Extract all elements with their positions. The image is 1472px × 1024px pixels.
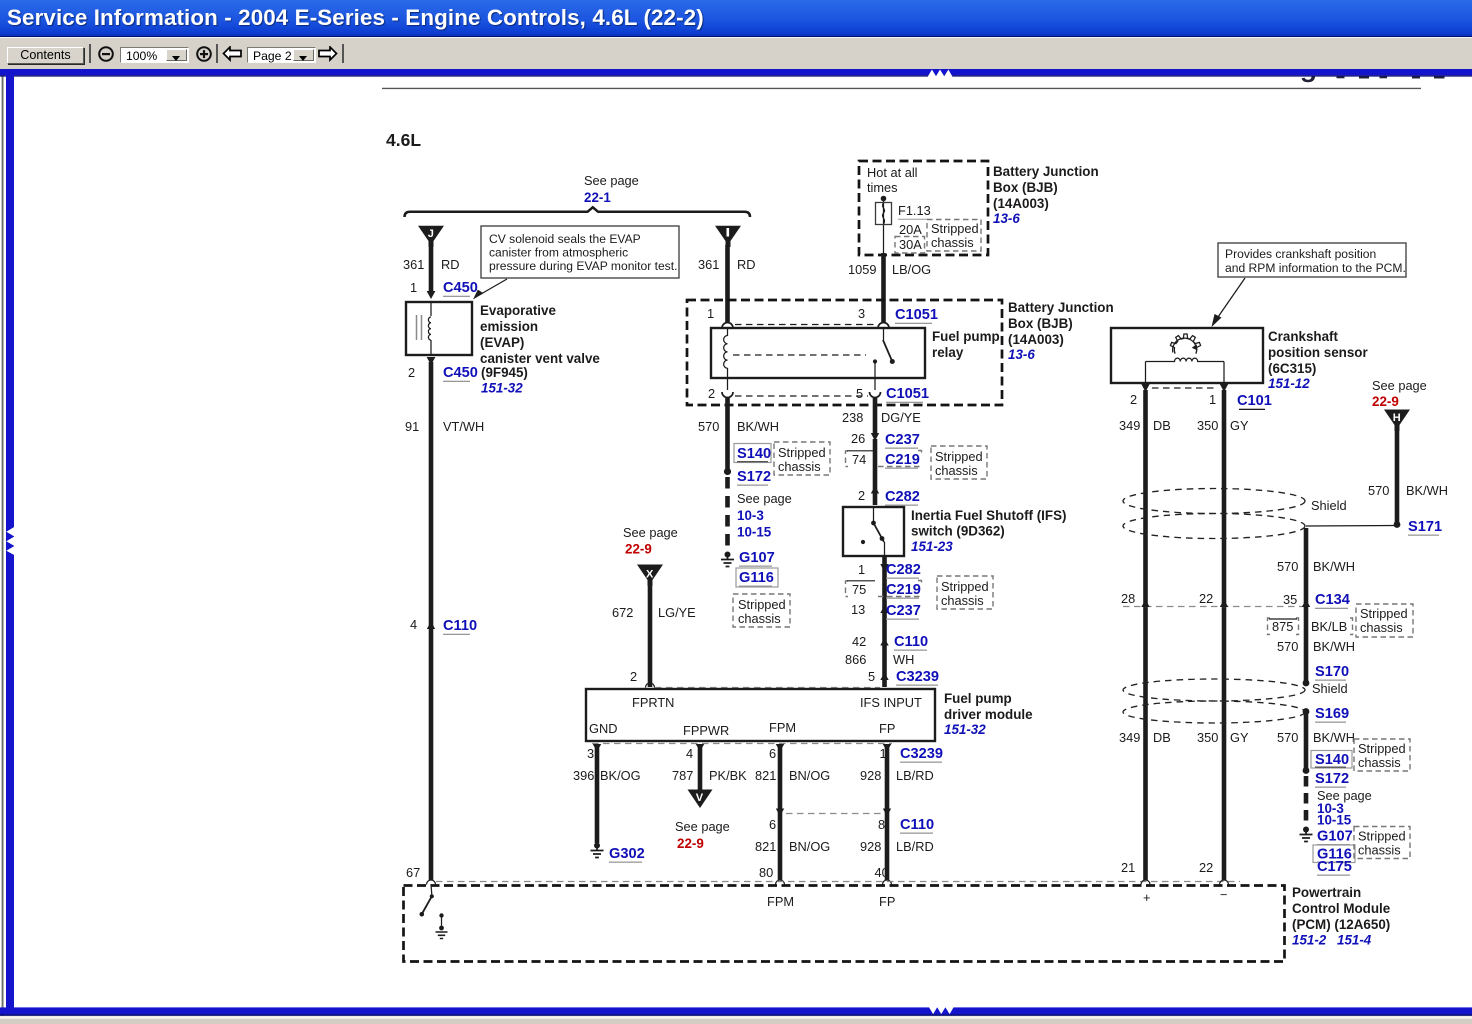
- svg-text:FP: FP: [879, 894, 895, 909]
- svg-text:Inertia Fuel Shutoff (IFS): Inertia Fuel Shutoff (IFS): [911, 508, 1066, 523]
- connector C219 pin 74: [846, 451, 922, 467]
- relay box: [711, 328, 925, 378]
- svg-text:22: 22: [1199, 860, 1213, 875]
- svg-text:See page: See page: [675, 819, 730, 834]
- wire 91 VT/WH: [429, 362, 434, 880]
- PCM internal switch to ground: [430, 884, 433, 895]
- svg-text:PK/BK: PK/BK: [709, 768, 747, 783]
- svg-text:4: 4: [686, 746, 693, 761]
- svg-text:67: 67: [406, 865, 420, 880]
- svg-text:Stripped: Stripped: [738, 597, 786, 612]
- inertia fuel shutoff switch: [843, 507, 904, 556]
- svg-text:C219: C219: [885, 452, 920, 468]
- svg-text:2: 2: [858, 488, 865, 503]
- stripped chassis note (C219 lower): [937, 576, 993, 609]
- svg-text:Battery Junction: Battery Junction: [1008, 300, 1114, 315]
- svg-text:80: 80: [759, 865, 773, 880]
- svg-text:C101: C101: [1237, 393, 1272, 409]
- svg-text:FPM: FPM: [769, 720, 796, 735]
- svg-text:position sensor: position sensor: [1268, 345, 1368, 360]
- wire 361 RD (J to C450): [429, 245, 434, 292]
- svg-text:26: 26: [851, 431, 865, 446]
- viewport frame: left window edge: [2, 67, 4, 1024]
- svg-text:6: 6: [769, 746, 776, 761]
- svg-text:Stripped: Stripped: [935, 449, 983, 464]
- svg-text:570: 570: [1368, 483, 1389, 498]
- svg-text:G302: G302: [609, 846, 645, 862]
- svg-text:Hot at all: Hot at all: [867, 165, 918, 180]
- svg-text:Shield: Shield: [1311, 498, 1347, 513]
- wire 821 BN/OG upper: [778, 748, 783, 880]
- svg-text:S140: S140: [1315, 752, 1349, 768]
- svg-text:13-6: 13-6: [1008, 347, 1035, 362]
- svg-text:30A: 30A: [899, 237, 922, 252]
- svg-text:chassis: chassis: [1358, 843, 1401, 858]
- svg-text:(PCM) (12A650): (PCM) (12A650): [1292, 917, 1390, 932]
- svg-text:relay: relay: [932, 345, 964, 360]
- svg-text:1: 1: [1209, 392, 1216, 407]
- svg-text:FPM: FPM: [767, 894, 794, 909]
- svg-text:13: 13: [851, 602, 865, 617]
- svg-text:74: 74: [852, 452, 866, 467]
- svg-text:821: 821: [755, 768, 776, 783]
- battery junction box (fuse) dashed enclosure: [859, 161, 988, 255]
- svg-text:Box (BJB): Box (BJB): [1008, 316, 1073, 331]
- svg-text:22-9: 22-9: [625, 542, 652, 557]
- svg-text:and RPM information to the PCM: and RPM information to the PCM.: [1225, 261, 1406, 275]
- svg-text:G116: G116: [739, 570, 774, 586]
- svg-text:VT/WH: VT/WH: [443, 419, 484, 434]
- svg-text:CV solenoid seals the EVAP: CV solenoid seals the EVAP: [489, 232, 641, 246]
- svg-text:GND: GND: [589, 721, 617, 736]
- stripped chassis note (C219): [931, 446, 987, 479]
- fuel pump driver module: [586, 689, 935, 741]
- svg-text:chassis: chassis: [941, 593, 984, 608]
- svg-text:75: 75: [852, 582, 866, 597]
- svg-text:2: 2: [408, 365, 415, 380]
- stripped chassis note (C134): [1356, 604, 1413, 637]
- crankshaft note callout: [1218, 243, 1406, 277]
- svg-text:S170: S170: [1315, 664, 1349, 680]
- crankshaft position sensor: [1111, 328, 1263, 383]
- wire 570 BK/WH (shield drain from H): [1395, 429, 1400, 522]
- viewport frame: bottom blue bar: [0, 1007, 1472, 1014]
- svg-text:151-2: 151-2: [1292, 933, 1327, 948]
- svg-text:RD: RD: [441, 257, 459, 272]
- svg-text:FP: FP: [879, 721, 895, 736]
- svg-text:C282: C282: [885, 489, 920, 505]
- svg-text:Fuel pump: Fuel pump: [944, 691, 1012, 706]
- svg-text:See page: See page: [737, 491, 792, 506]
- svg-text:151-4: 151-4: [1337, 933, 1372, 948]
- svg-text:LG/YE: LG/YE: [658, 605, 696, 620]
- relay switch: [883, 328, 885, 340]
- svg-text:C450: C450: [443, 365, 478, 381]
- svg-text:821: 821: [755, 839, 776, 854]
- svg-text:V: V: [696, 792, 704, 804]
- svg-text:C3239: C3239: [900, 746, 943, 762]
- svg-text:151-23: 151-23: [911, 539, 953, 554]
- svg-text:chassis: chassis: [931, 235, 974, 250]
- splice S172 (drain): [1303, 767, 1310, 774]
- svg-text:20A: 20A: [899, 222, 922, 237]
- svg-text:151-32: 151-32: [481, 381, 523, 396]
- svg-text:Shield: Shield: [1312, 681, 1348, 696]
- svg-text:(EVAP): (EVAP): [480, 335, 524, 350]
- svg-text:RD: RD: [737, 257, 755, 272]
- CV solenoid note callout: [481, 226, 679, 278]
- svg-text:151-32: 151-32: [944, 722, 986, 737]
- shield (lower): [1123, 679, 1305, 701]
- svg-text:350: 350: [1197, 418, 1218, 433]
- wire 928 LB/RD upper: [885, 748, 890, 880]
- bottom gray strip: [0, 1016, 1472, 1024]
- svg-text:switch (9D362): switch (9D362): [911, 524, 1005, 539]
- svg-text:22-9: 22-9: [677, 836, 704, 851]
- shield (upper): [1123, 489, 1305, 514]
- svg-text:Control Module: Control Module: [1292, 901, 1390, 916]
- svg-text:C282: C282: [886, 562, 921, 578]
- toolbar: [0, 37, 1472, 69]
- svg-text:C237: C237: [886, 603, 921, 619]
- svg-text:chassis: chassis: [1360, 620, 1403, 635]
- ground G302: [594, 843, 600, 849]
- svg-text:pressure during EVAP monitor t: pressure during EVAP monitor test.: [489, 259, 677, 273]
- svg-text:GY: GY: [1230, 418, 1249, 433]
- svg-text:emission: emission: [480, 319, 538, 334]
- svg-text:570: 570: [1277, 639, 1298, 654]
- relay coil: [727, 328, 729, 378]
- svg-text:C237: C237: [885, 432, 920, 448]
- svg-text:X: X: [646, 569, 654, 581]
- svg-text:13-6: 13-6: [993, 211, 1020, 226]
- splice S172: [724, 468, 731, 475]
- svg-text:C110: C110: [900, 817, 934, 833]
- svg-text:28: 28: [1121, 591, 1135, 606]
- svg-text:Fuel pump: Fuel pump: [932, 329, 1000, 344]
- svg-text:928: 928: [860, 768, 881, 783]
- svg-text:G107: G107: [1317, 829, 1353, 845]
- svg-text:672: 672: [612, 605, 633, 620]
- connector C110 pin 4: [427, 622, 435, 630]
- svg-text:BK/WH: BK/WH: [1406, 483, 1448, 498]
- top tear zigzag: [928, 70, 953, 79]
- svg-text:866: 866: [845, 652, 866, 667]
- gear icon: [1170, 334, 1200, 354]
- fuel pump relay dashed enclosure (BJB): [687, 300, 1002, 405]
- svg-text:canister from atmospheric: canister from atmospheric: [489, 246, 628, 260]
- connector C282 pin 2: [871, 486, 879, 494]
- stripped chassis note (S140): [774, 442, 830, 475]
- svg-text:35: 35: [1283, 592, 1297, 607]
- svg-text:S169: S169: [1315, 706, 1349, 722]
- PCM connector line C175: [436, 881, 1240, 883]
- wire 787 PK/BK: [698, 748, 703, 790]
- svg-text:S171: S171: [1408, 519, 1442, 535]
- wire 570 BK/WH (relay pin2 down): [725, 398, 730, 470]
- svg-text:22-1: 22-1: [584, 190, 611, 205]
- svg-text:C1051: C1051: [886, 386, 929, 402]
- wire 349 DB: [1143, 390, 1148, 880]
- connector C282 pin 1: [882, 556, 887, 687]
- svg-text:(9F945): (9F945): [481, 365, 528, 380]
- svg-text:361: 361: [403, 257, 424, 272]
- svg-text:DB: DB: [1153, 730, 1171, 745]
- svg-text:S172: S172: [1315, 771, 1349, 787]
- svg-text:F1.13: F1.13: [898, 203, 931, 218]
- connector C237 pin 13: [880, 606, 888, 614]
- bus bracket: [405, 207, 751, 217]
- window title bar: [0, 0, 1472, 37]
- svg-text:See page: See page: [584, 173, 639, 188]
- svg-text:−: −: [1220, 887, 1227, 902]
- svg-text:8: 8: [878, 817, 885, 832]
- svg-text:361: 361: [698, 257, 719, 272]
- module connector dashes: [655, 687, 880, 689]
- splice S171: [1394, 521, 1401, 528]
- wire 396 BK/OG: [595, 748, 600, 843]
- svg-text:+: +: [1143, 890, 1150, 905]
- stripped chassis note (G107): [733, 594, 790, 627]
- svg-text:396: 396: [573, 768, 594, 783]
- viewport frame: top blue bar: [0, 69, 1472, 76]
- svg-text:2: 2: [1130, 392, 1137, 407]
- svg-text:Crankshaft: Crankshaft: [1268, 329, 1338, 344]
- svg-text:C450: C450: [443, 280, 478, 296]
- left tear zigzag: [6, 526, 15, 555]
- svg-text:350: 350: [1197, 730, 1218, 745]
- svg-text:Powertrain: Powertrain: [1292, 885, 1361, 900]
- svg-text:IFS INPUT: IFS INPUT: [860, 695, 922, 710]
- svg-text:Battery Junction: Battery Junction: [993, 164, 1099, 179]
- svg-text:S140: S140: [737, 446, 771, 462]
- off-page arrow V: [688, 790, 713, 809]
- svg-text:C3239: C3239: [896, 669, 939, 685]
- svg-text:Stripped: Stripped: [941, 579, 989, 594]
- svg-text:2: 2: [630, 669, 637, 684]
- connector C110 pin 42: [880, 638, 888, 646]
- dashed wire to ground: [725, 477, 730, 552]
- splice S169: [1303, 708, 1310, 715]
- svg-text:349: 349: [1119, 418, 1140, 433]
- connector C134 pins 28 / 22 / 35: [1123, 606, 1310, 608]
- svg-text:3: 3: [587, 746, 594, 761]
- connector C3239 pin 5: [880, 673, 888, 681]
- stripped chassis note (fuse): [927, 220, 981, 252]
- svg-text:1059: 1059: [848, 262, 876, 277]
- wire 350 GY: [1222, 390, 1227, 880]
- svg-text:BK/LB: BK/LB: [1311, 619, 1347, 634]
- svg-text:Stripped: Stripped: [1360, 606, 1408, 621]
- svg-text:91: 91: [405, 419, 419, 434]
- stripped chassis note (G107 drain): [1354, 827, 1410, 859]
- svg-text:Stripped: Stripped: [1358, 741, 1406, 756]
- svg-text:787: 787: [672, 768, 693, 783]
- svg-text:LB/RD: LB/RD: [896, 839, 934, 854]
- connector C110 pins 6 / 8: [776, 809, 784, 817]
- svg-text:BK/WH: BK/WH: [1313, 559, 1355, 574]
- connector C219 pin 75: [846, 581, 922, 597]
- viewport frame: left blue bar: [6, 69, 14, 1008]
- svg-text:570: 570: [1277, 730, 1298, 745]
- svg-text:DB: DB: [1153, 418, 1171, 433]
- svg-text:See page: See page: [1372, 378, 1427, 393]
- wire 570 BK/WH below C134: [1304, 607, 1309, 684]
- ground ref G116 (drain): [1313, 845, 1355, 863]
- sensor coil: [1146, 358, 1225, 361]
- svg-text:3: 3: [858, 306, 865, 321]
- svg-text:C110: C110: [443, 618, 477, 634]
- svg-text:J: J: [428, 228, 434, 240]
- wire labels row 349 DB 350 GY 570 BK/WH: [1304, 712, 1309, 770]
- shield drain wire 570 BK/WH: [1304, 528, 1309, 606]
- svg-text:10-15: 10-15: [1317, 813, 1352, 828]
- svg-text:349: 349: [1119, 730, 1140, 745]
- connector C101 pins 2 / 1: [1141, 384, 1149, 392]
- svg-text:C110: C110: [894, 634, 928, 650]
- svg-text:42: 42: [852, 634, 866, 649]
- svg-text:875: 875: [1272, 619, 1293, 634]
- svg-text:1: 1: [410, 280, 417, 295]
- svg-text:151-12: 151-12: [1268, 376, 1310, 391]
- svg-text:5: 5: [868, 669, 875, 684]
- svg-text:1: 1: [858, 562, 865, 577]
- hidden page heading remnants: [1301, 76, 1445, 82]
- svg-text:BK/WH: BK/WH: [1313, 730, 1355, 745]
- svg-text:BN/OG: BN/OG: [789, 768, 830, 783]
- bottom tear zigzag: [929, 1005, 954, 1014]
- connector C237 pin 26: [871, 433, 879, 441]
- svg-text:chassis: chassis: [738, 611, 781, 626]
- PCM internal ground symbol: [439, 913, 443, 917]
- wire 238 DG/YE (relay pin5 down): [873, 398, 878, 433]
- svg-text:5: 5: [856, 386, 863, 401]
- svg-text:Stripped: Stripped: [1358, 829, 1406, 844]
- relay connector arcs top: [722, 323, 733, 329]
- svg-text:570: 570: [698, 419, 719, 434]
- svg-text:22-9: 22-9: [1372, 394, 1399, 409]
- svg-text:S172: S172: [737, 469, 771, 485]
- svg-text:BK/WH: BK/WH: [737, 419, 779, 434]
- svg-text:2: 2: [708, 386, 715, 401]
- svg-text:4: 4: [410, 617, 417, 632]
- svg-text:LB/RD: LB/RD: [896, 768, 934, 783]
- svg-text:(6C315): (6C315): [1268, 361, 1316, 376]
- svg-text:4.6L: 4.6L: [386, 130, 421, 150]
- svg-text:22: 22: [1199, 591, 1213, 606]
- svg-text:1: 1: [707, 306, 714, 321]
- svg-text:DG/YE: DG/YE: [881, 410, 921, 425]
- svg-text:21: 21: [1121, 860, 1135, 875]
- page header rule: [382, 87, 1421, 89]
- svg-text:(14A003): (14A003): [993, 196, 1049, 211]
- svg-text:GY: GY: [1230, 730, 1249, 745]
- svg-text:Evaporative: Evaporative: [480, 303, 556, 318]
- off-page arrow J: [418, 226, 444, 247]
- splice S140 (drain): [1311, 751, 1352, 769]
- svg-text:238: 238: [842, 410, 863, 425]
- dashed drain wire to ground: [1304, 776, 1309, 827]
- svg-text:G107: G107: [739, 550, 775, 566]
- stripped chassis note (S140 drain): [1354, 739, 1410, 771]
- off-page arrow I: [715, 226, 741, 247]
- svg-text:570: 570: [1277, 559, 1298, 574]
- svg-text:10-3: 10-3: [737, 508, 764, 523]
- svg-text:Provides crankshaft position: Provides crankshaft position: [1225, 247, 1376, 261]
- svg-text:driver module: driver module: [944, 707, 1033, 722]
- powertrain control module PCM dashed box: [404, 886, 1285, 962]
- svg-text:H: H: [1393, 412, 1401, 424]
- svg-text:BN/OG: BN/OG: [789, 839, 830, 854]
- wire 875 BK/LB tag: [1268, 618, 1299, 635]
- svg-text:40: 40: [875, 865, 889, 880]
- svg-text:chassis: chassis: [1358, 755, 1401, 770]
- svg-text:FPRTN: FPRTN: [632, 695, 674, 710]
- splice S140: [734, 444, 771, 463]
- ground G107 (drain): [1303, 827, 1309, 833]
- svg-text:BK/OG: BK/OG: [600, 768, 641, 783]
- ground G107: [725, 552, 731, 558]
- svg-text:See page: See page: [623, 525, 678, 540]
- svg-text:WH: WH: [893, 652, 914, 667]
- svg-text:canister vent valve: canister vent valve: [480, 351, 600, 366]
- svg-text:Stripped: Stripped: [931, 221, 979, 236]
- svg-text:C219: C219: [886, 582, 921, 598]
- wire 1059 LB/OG: [881, 253, 886, 322]
- svg-text:BK/WH: BK/WH: [1313, 639, 1355, 654]
- svg-text:C175: C175: [1317, 859, 1352, 875]
- svg-text:928: 928: [860, 839, 881, 854]
- wire 672 LG/YE: [648, 584, 653, 687]
- svg-text:Box (BJB): Box (BJB): [993, 180, 1058, 195]
- fuse F1.13: [881, 196, 887, 202]
- svg-text:Stripped: Stripped: [778, 445, 826, 460]
- svg-text:chassis: chassis: [935, 463, 978, 478]
- EVAP canister vent valve U1: [406, 302, 472, 355]
- svg-text:FPPWR: FPPWR: [683, 723, 729, 738]
- ground ref G116: [736, 568, 778, 587]
- svg-text:C134: C134: [1315, 592, 1351, 608]
- svg-text:times: times: [867, 180, 898, 195]
- wire 361 RD (I to relay): [725, 245, 730, 322]
- svg-text:chassis: chassis: [778, 459, 821, 474]
- svg-text:(14A003): (14A003): [1008, 332, 1064, 347]
- svg-text:C1051: C1051: [895, 307, 938, 323]
- svg-text:LB/OG: LB/OG: [892, 262, 931, 277]
- svg-text:6: 6: [769, 817, 776, 832]
- svg-text:10-15: 10-15: [737, 525, 772, 540]
- module output connector C3239: [592, 743, 892, 745]
